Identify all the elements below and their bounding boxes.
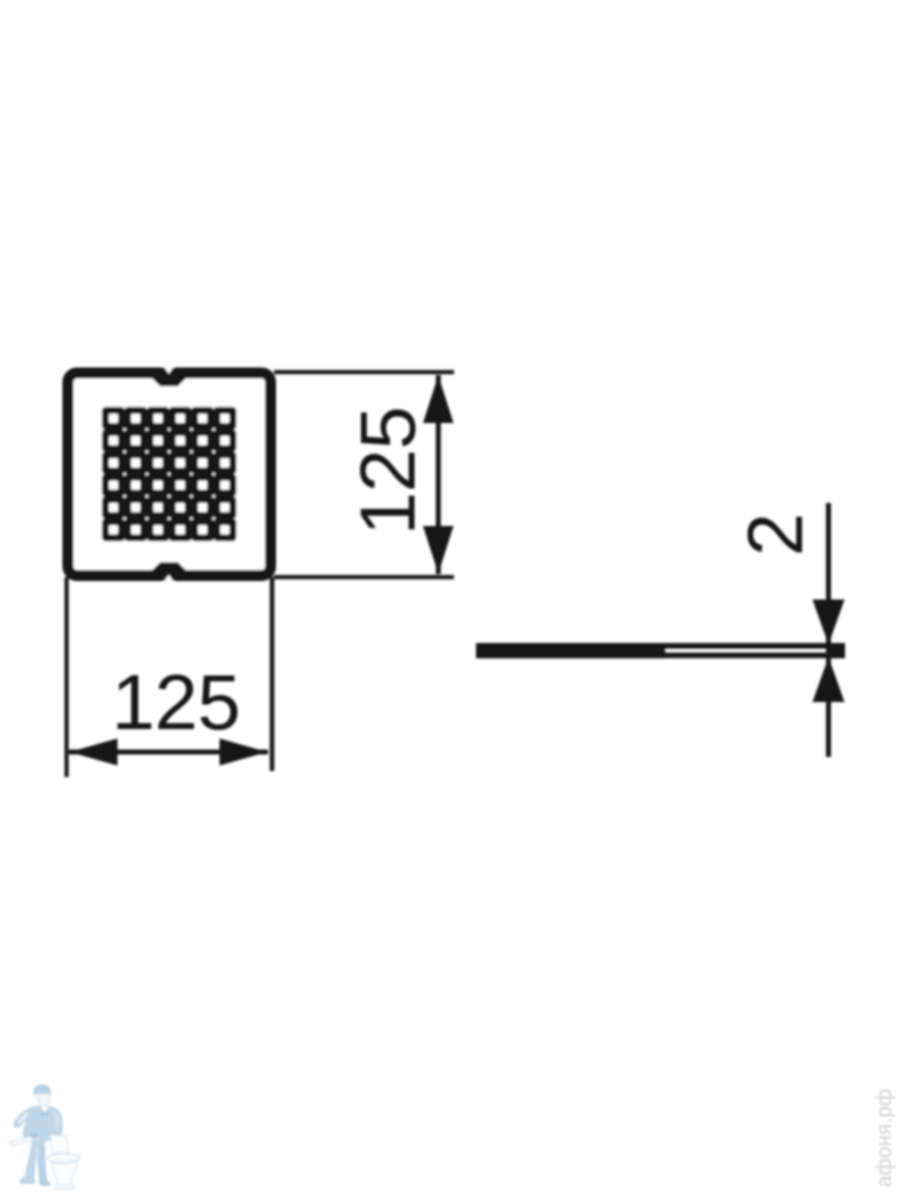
plunger white stick [12, 1135, 40, 1146]
toilet tank [51, 1135, 69, 1154]
arrowhead up [423, 376, 454, 424]
side view bar bottom line [476, 653, 845, 659]
ear [36, 1097, 38, 1100]
extension line left down [65, 577, 69, 777]
arrowhead 2 down [813, 600, 845, 645]
boot right [39, 1180, 51, 1186]
bottom notch white V [163, 575, 175, 583]
plumber torso jacket [13, 1105, 63, 1147]
arrowhead 2 up [813, 657, 845, 702]
plunger cup [30, 1132, 39, 1139]
jacket white highlights [18, 1113, 29, 1123]
plumber face [38, 1094, 50, 1107]
boot left [20, 1178, 36, 1185]
arrowhead down [423, 526, 454, 574]
bottom alignment bump [153, 563, 185, 570]
top alignment bump [153, 378, 185, 385]
toilet bowl [52, 1161, 78, 1185]
arrowhead right [220, 739, 268, 766]
side view bar solid left half [476, 643, 665, 658]
toilet base [55, 1185, 75, 1189]
svg-text:афоня.рф: афоня.рф [873, 1089, 896, 1187]
bowtie [41, 1111, 48, 1117]
extension line bottom right [274, 575, 454, 579]
svg-text:125: 125 [112, 658, 241, 746]
dimension line 125 horizontal [69, 750, 268, 755]
left hand [8, 1140, 14, 1146]
arrowhead left [70, 739, 118, 766]
grate plate outline (plan view) [68, 373, 271, 576]
side view bar top line [476, 643, 845, 649]
dimension line 2 vertical [826, 503, 831, 757]
toilet seat lid [47, 1153, 79, 1162]
legs [24, 1147, 38, 1181]
extension line top right [274, 370, 454, 374]
svg-text:2: 2 [731, 513, 819, 556]
watermark logo: plumber with toilet [8, 1084, 79, 1188]
collar white V [41, 1106, 49, 1114]
plumber cap [33, 1084, 51, 1095]
grate hole pattern 6x6 [102, 407, 236, 541]
top notch white V [163, 366, 175, 374]
svg-text:125: 125 [344, 407, 432, 536]
dimension line 125 vertical [436, 375, 441, 574]
side view bar solid right cap [826, 643, 845, 658]
extension line right down [270, 577, 275, 771]
